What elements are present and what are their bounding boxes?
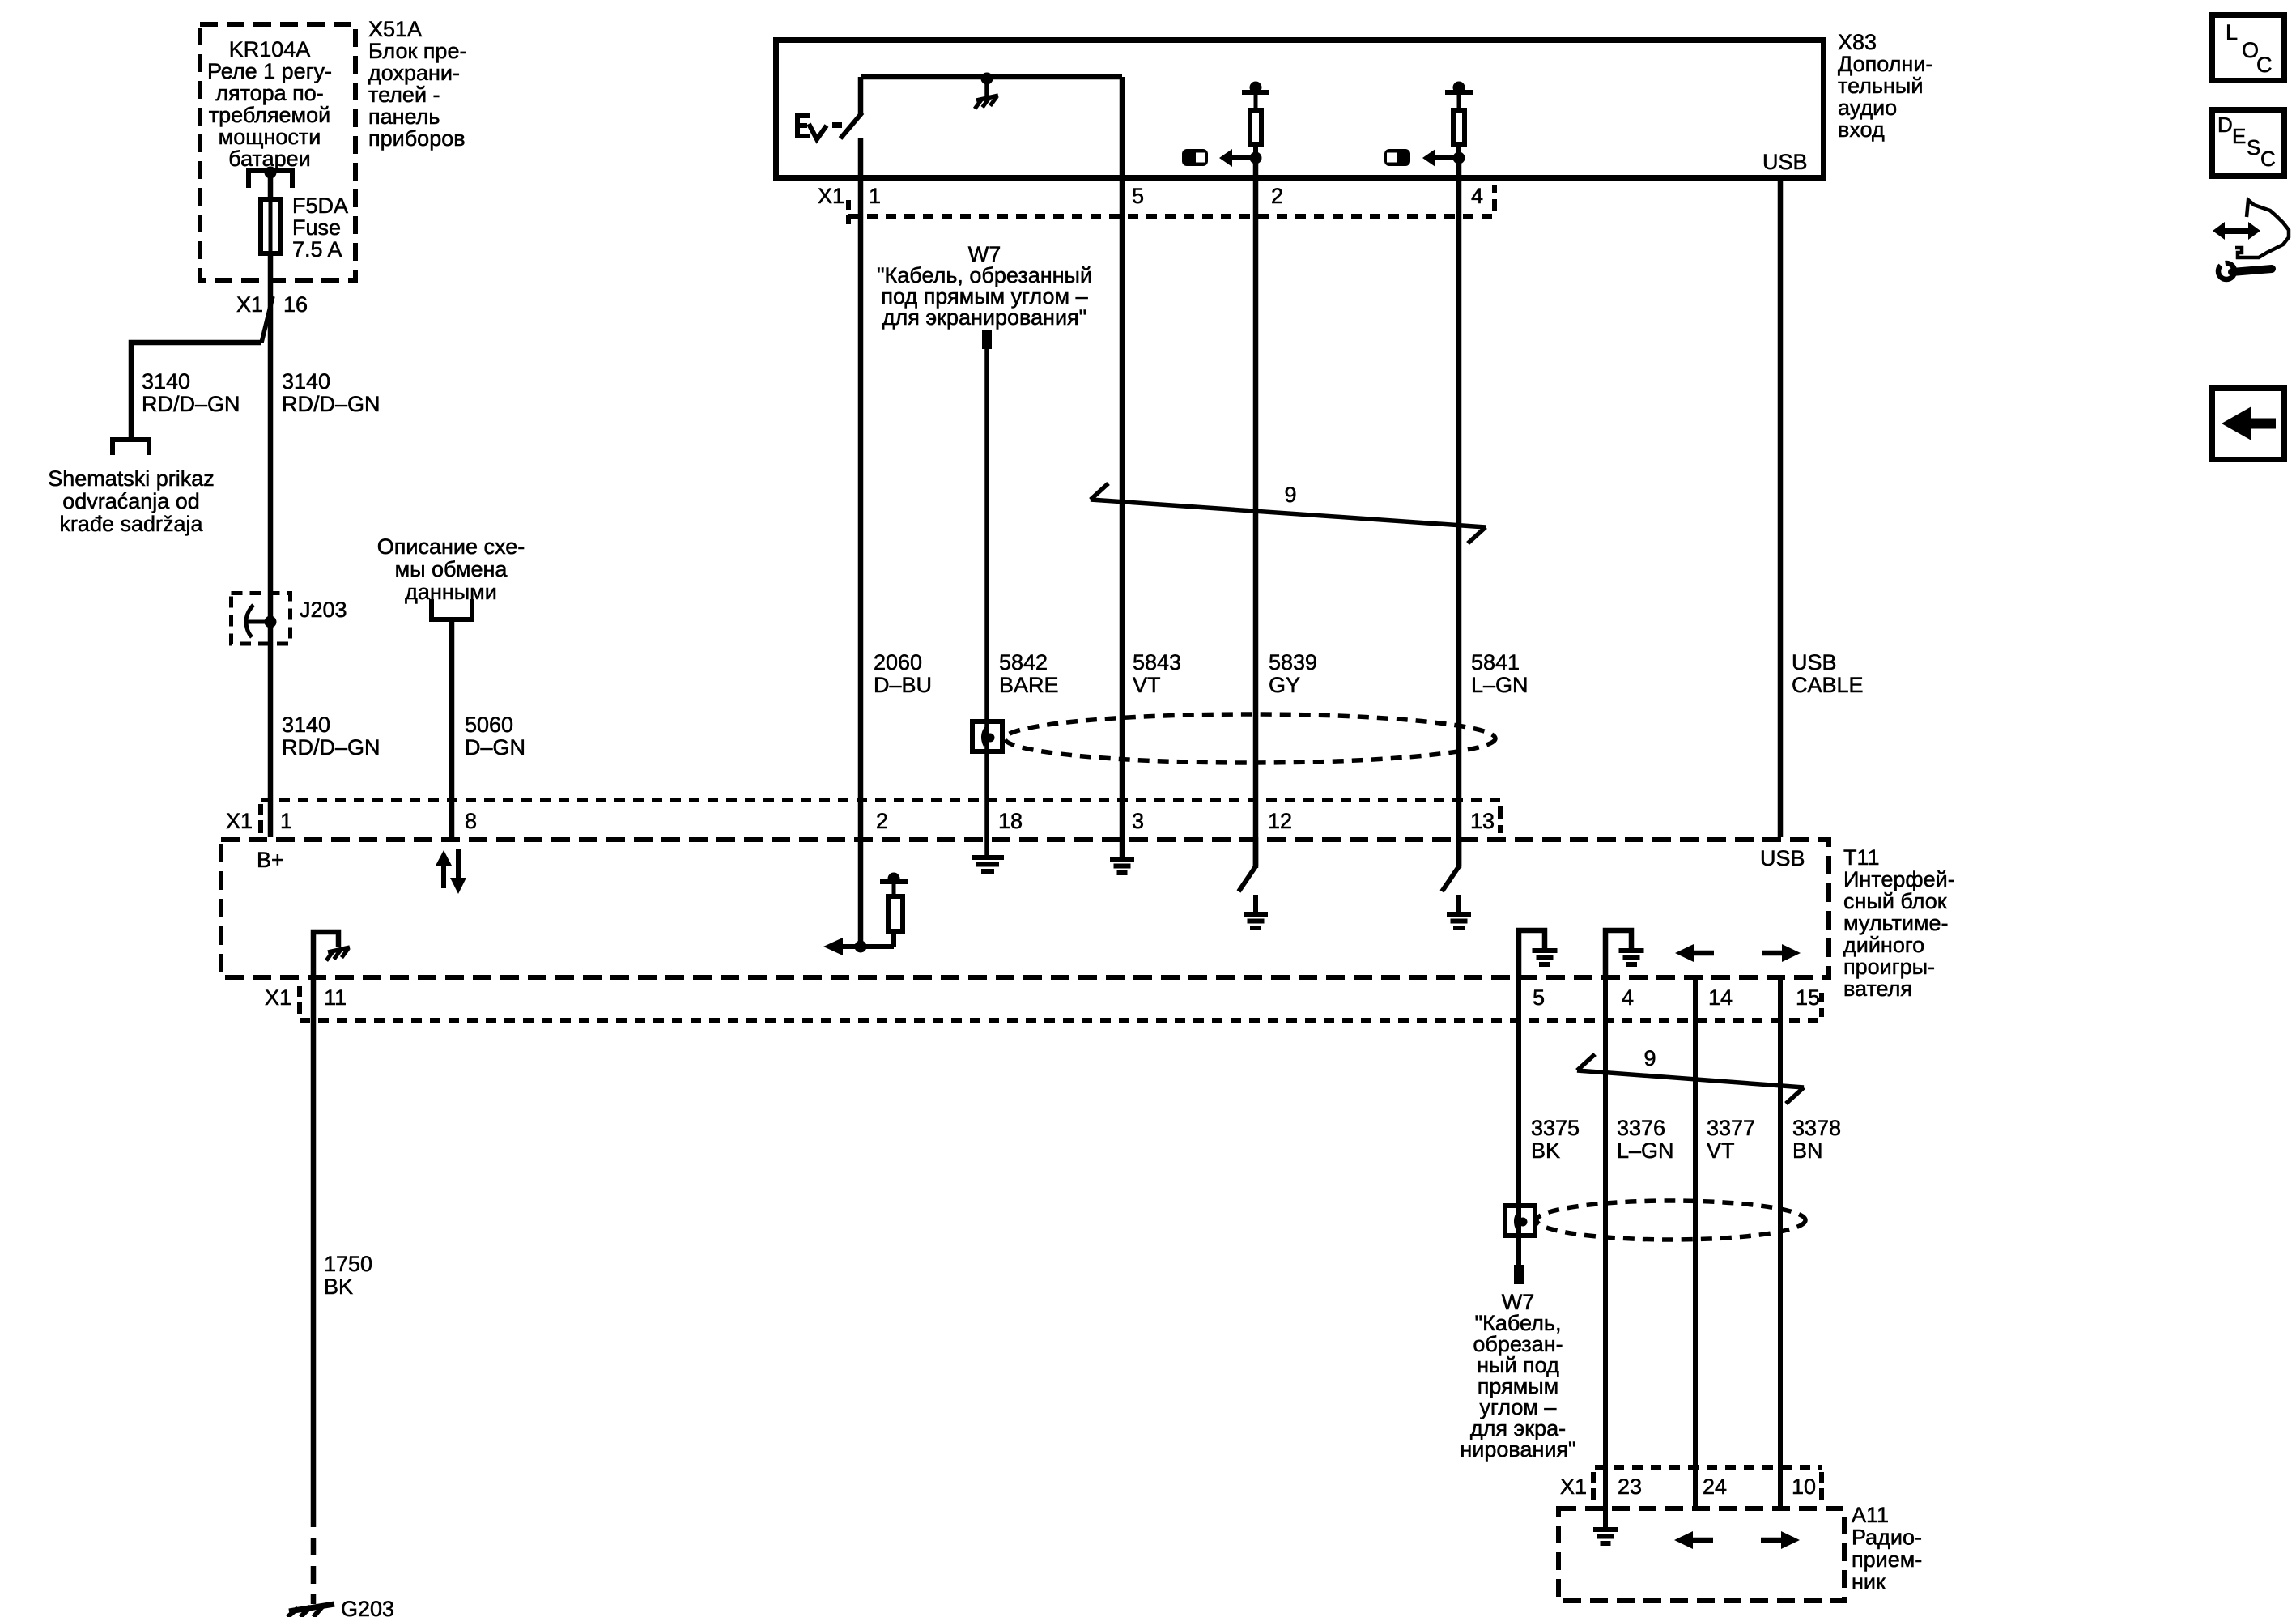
svg-text:мультиме-: мультиме- — [1843, 911, 1949, 935]
svg-text:3140: 3140 — [282, 369, 330, 394]
connector X83 box — [776, 40, 1824, 178]
svg-text:D–BU: D–BU — [874, 673, 932, 697]
connector X1 row (X83) dotted line — [848, 214, 1495, 219]
svg-text:11: 11 — [324, 985, 347, 1010]
svg-text:1: 1 — [869, 184, 881, 208]
connector X1 row (T11 bottom) dotted line — [300, 1018, 1822, 1023]
svg-text:тельный: тельный — [1838, 74, 1923, 98]
svg-text:13: 13 — [1470, 809, 1495, 833]
svg-text:нирования": нирования" — [1460, 1437, 1575, 1462]
shield cut stub (bottom) — [1514, 1265, 1524, 1284]
switch to ground (pin 13) — [1456, 837, 1462, 866]
ground G203 symbol — [289, 1604, 334, 1611]
signal ground (pin 5) — [1533, 948, 1558, 953]
data link connector icon wrench — [2218, 263, 2234, 279]
wire 3375 BK (shield) — [1516, 980, 1521, 1266]
arrow out (A11 pin 24) — [1691, 1538, 1713, 1543]
data arrows (pin 8) — [441, 863, 446, 888]
svg-text:X1: X1 — [818, 184, 844, 208]
svg-text:USB: USB — [1762, 150, 1808, 174]
svg-text:3376: 3376 — [1617, 1116, 1665, 1140]
svg-text:X1: X1 — [226, 809, 253, 833]
junction dot (T11 pin 2) — [855, 941, 867, 953]
signal ground (pin 3) — [1120, 837, 1125, 857]
svg-text:24: 24 — [1703, 1474, 1727, 1499]
wire terminal to fuse — [268, 172, 274, 199]
off-page bracket (data link) — [432, 599, 472, 619]
shield cut stub (top) — [982, 330, 992, 349]
chassis ground (X83) — [976, 96, 998, 100]
junction dot pin 2 (X83) — [1250, 152, 1262, 164]
svg-text:проигры-: проигры- — [1843, 955, 1935, 979]
wire branch to theft-deterrent note — [131, 343, 261, 442]
pin 16 branch slash — [261, 296, 273, 343]
svg-text:C: C — [2260, 147, 2276, 171]
arrow out (pin 14) — [1692, 951, 1714, 956]
arrow inside T11 (pin 2) — [844, 944, 859, 949]
svg-text:USB: USB — [1792, 650, 1837, 674]
wire fuse to pin 16 — [268, 253, 274, 837]
svg-text:5843: 5843 — [1133, 650, 1181, 674]
svg-text:4: 4 — [1471, 184, 1483, 208]
svg-text:9: 9 — [1284, 483, 1296, 507]
shield splice box (bottom) — [1505, 1206, 1535, 1236]
svg-text:Fuse: Fuse — [292, 215, 341, 240]
svg-text:odvraćanja od: odvraćanja od — [62, 489, 200, 513]
svg-text:5: 5 — [1533, 985, 1545, 1010]
relay KR104A dashed box (X51A fuse block) — [200, 24, 355, 280]
LOC icon box — [2213, 15, 2285, 81]
svg-text:X1: X1 — [1560, 1474, 1587, 1499]
svg-text:CABLE: CABLE — [1792, 673, 1864, 697]
jack switch gap dash — [832, 122, 842, 128]
svg-text:3: 3 — [1132, 809, 1144, 833]
svg-text:вход: вход — [1838, 117, 1885, 142]
battery feed terminal bracket — [249, 171, 292, 188]
connector X1 row (T11 bottom) divider — [297, 986, 302, 997]
svg-text:krađe sadržaja: krađe sadržaja — [59, 512, 203, 536]
shield splice box (top) — [972, 721, 1002, 751]
svg-text:RD/D–GN: RD/D–GN — [282, 392, 381, 416]
chassis ground stem (X83) — [984, 79, 989, 97]
svg-text:16: 16 — [283, 292, 308, 317]
svg-text:3377: 3377 — [1707, 1116, 1755, 1140]
svg-text:12: 12 — [1268, 809, 1292, 833]
svg-text:X51A: X51A — [368, 17, 422, 41]
svg-text:сный блок: сный блок — [1843, 889, 1947, 913]
connector X1 row (X83) end riser — [1492, 185, 1497, 193]
svg-text:15: 15 — [1796, 985, 1820, 1010]
svg-text:5: 5 — [1132, 184, 1144, 208]
splice J203 dashed box — [232, 594, 291, 645]
connector X1 row (X83) divider — [846, 200, 851, 210]
signal ground (A11 pin 23) — [1593, 1527, 1618, 1532]
svg-text:E: E — [2232, 124, 2246, 148]
svg-text:1750: 1750 — [324, 1252, 372, 1276]
wire X83 pin 1 to T11 pin 2 — [858, 138, 864, 947]
svg-text:3375: 3375 — [1531, 1116, 1580, 1140]
svg-text:L: L — [2226, 20, 2238, 45]
ground hook (pin 11) — [313, 932, 338, 981]
svg-text:аудио: аудио — [1838, 96, 1897, 120]
svg-text:мы обмена: мы обмена — [395, 557, 508, 581]
svg-text:D–GN: D–GN — [465, 735, 525, 760]
svg-text:7.5 A: 7.5 A — [292, 237, 342, 262]
svg-text:RD/D–GN: RD/D–GN — [142, 392, 240, 416]
svg-text:5839: 5839 — [1269, 650, 1317, 674]
wire X83 pin 4 to T11 pin 13 — [1456, 158, 1462, 868]
wire X83 pin 2 to T11 pin 12 — [1253, 158, 1259, 868]
svg-text:L–GN: L–GN — [1471, 673, 1529, 697]
data link connector icon car outline — [2235, 200, 2289, 257]
termination resistor (T11) — [842, 944, 894, 949]
data link connector icon arrow — [2224, 228, 2249, 234]
connector icon (pin2) — [1182, 149, 1208, 166]
svg-text:3140: 3140 — [142, 369, 190, 394]
shield ellipse (bottom) — [1537, 1201, 1805, 1240]
audio jack symbol — [795, 113, 800, 138]
wire blade to top rail — [858, 77, 864, 114]
svg-text:5060: 5060 — [465, 713, 513, 737]
svg-text:4: 4 — [1622, 985, 1634, 1010]
svg-text:5841: 5841 — [1471, 650, 1520, 674]
svg-text:B+: B+ — [257, 848, 284, 872]
wire 3377 VT — [1693, 980, 1698, 1508]
svg-text:Shematski prikaz: Shematski prikaz — [48, 466, 215, 491]
shield ellipse (top) — [1005, 714, 1495, 763]
svg-text:D: D — [2217, 113, 2233, 137]
svg-text:3140: 3140 — [282, 713, 330, 737]
ground hook (pin 4) — [1605, 930, 1631, 980]
svg-text:дохрани-: дохрани- — [368, 61, 460, 85]
arrow to connector icon (pin4) — [1435, 155, 1457, 160]
svg-text:мощности: мощности — [219, 125, 321, 149]
svg-text:2: 2 — [1271, 184, 1283, 208]
connector X1 row (A11) divider — [1591, 1472, 1596, 1483]
wire 1750 BK to G203 — [311, 981, 317, 1509]
svg-text:Интерфей-: Интерфей- — [1843, 867, 1955, 891]
wire 3376 L-GN — [1603, 980, 1608, 1529]
svg-text:Реле 1 регу-: Реле 1 регу- — [207, 59, 332, 83]
svg-text:14: 14 — [1708, 985, 1733, 1010]
svg-text:F5DA: F5DA — [292, 194, 348, 218]
connector X1 row (A11) end riser — [1819, 1472, 1824, 1483]
svg-text:требляемой: требляемой — [209, 103, 330, 127]
harness 9 crossing line (top) — [1091, 500, 1486, 527]
svg-text:телей -: телей - — [368, 83, 440, 107]
svg-text:приборов: приборов — [368, 126, 466, 151]
svg-text:S: S — [2247, 135, 2260, 160]
resistor R1 terminal bar — [1242, 90, 1269, 95]
svg-text:18: 18 — [998, 809, 1023, 833]
junction dot (shield ground) — [981, 73, 993, 85]
svg-text:Блок пре-: Блок пре- — [368, 39, 466, 63]
module T11 dashed box — [221, 840, 1829, 977]
svg-text:дийного: дийного — [1843, 933, 1924, 957]
svg-text:панель: панель — [368, 104, 440, 129]
svg-text:J203: J203 — [300, 598, 347, 622]
svg-text:для экранирования": для экранирования" — [882, 305, 1087, 330]
shield ground (pin 18) — [972, 855, 1004, 860]
svg-text:X83: X83 — [1838, 30, 1877, 54]
svg-text:T11: T11 — [1843, 845, 1880, 870]
switch to ground (pin 12) — [1253, 837, 1259, 866]
svg-text:RD/D–GN: RD/D–GN — [282, 735, 381, 760]
arrow in (pin 15) — [1762, 951, 1784, 956]
junction dot pin 4 (X83) — [1453, 152, 1465, 164]
chassis ground (T11 pin 11) — [328, 947, 350, 952]
arrow in (A11 pin 10) — [1761, 1538, 1783, 1543]
svg-text:X1: X1 — [236, 292, 263, 317]
svg-text:L–GN: L–GN — [1617, 1138, 1674, 1163]
DESC icon box — [2213, 110, 2285, 177]
wire 5842 BARE shield — [984, 349, 989, 857]
svg-text:3378: 3378 — [1792, 1116, 1841, 1140]
svg-text:BK: BK — [1531, 1138, 1560, 1163]
svg-text:VT: VT — [1707, 1138, 1735, 1163]
connector X1 row (T11 top) end riser — [1498, 806, 1503, 819]
svg-text:G203: G203 — [341, 1597, 394, 1617]
svg-text:KR104A: KR104A — [229, 37, 311, 62]
connector X1 row (T11 top) divider — [258, 804, 263, 815]
svg-text:BARE: BARE — [999, 673, 1059, 697]
svg-text:23: 23 — [1618, 1474, 1642, 1499]
svg-text:GY: GY — [1269, 673, 1300, 697]
svg-text:X1: X1 — [265, 985, 291, 1010]
connector X1 row (T11 top) dotted line — [261, 798, 1500, 802]
svg-text:прием-: прием- — [1852, 1547, 1922, 1572]
wire 5060 — [449, 619, 455, 837]
svg-text:9: 9 — [1643, 1046, 1656, 1070]
svg-text:8: 8 — [465, 809, 477, 833]
off-page bracket (theft deterrent) — [113, 440, 149, 455]
connector X1 row (T11 bottom) end riser — [1819, 993, 1824, 1002]
svg-text:2: 2 — [876, 809, 888, 833]
wire 3378 BN — [1778, 980, 1783, 1508]
svg-text:Дополни-: Дополни- — [1838, 52, 1932, 76]
harness 9 crossing line (bottom) — [1577, 1070, 1804, 1087]
resistor R2 terminal dot — [1453, 82, 1465, 94]
resistor R1 — [1254, 92, 1258, 110]
svg-text:BN: BN — [1792, 1138, 1823, 1163]
svg-text:10: 10 — [1792, 1474, 1816, 1499]
svg-text:VT: VT — [1133, 673, 1161, 697]
arrow to connector icon (pin2) — [1231, 155, 1254, 160]
svg-text:лятора по-: лятора по- — [215, 81, 324, 105]
svg-text:BK: BK — [324, 1274, 353, 1299]
connector icon (pin4) — [1384, 149, 1410, 166]
dashed wire to G203 — [311, 1509, 317, 1604]
svg-text:2060: 2060 — [874, 650, 922, 674]
resistor R1 terminal dot — [1250, 82, 1262, 94]
back arrow icon — [2250, 419, 2276, 429]
radio A11 dashed box — [1558, 1508, 1844, 1601]
resistor R2 terminal bar — [1445, 90, 1473, 95]
wire X83 USB to T11 — [1778, 181, 1784, 837]
jack switch blade — [840, 113, 862, 138]
svg-text:A11: A11 — [1852, 1503, 1889, 1527]
svg-text:Описание схе-: Описание схе- — [377, 534, 525, 559]
signal ground (pin 4) — [1619, 948, 1644, 953]
svg-text:Радио-: Радио- — [1852, 1526, 1922, 1550]
resistor R2 — [1457, 92, 1461, 110]
svg-text:1: 1 — [280, 809, 292, 833]
svg-text:ник: ник — [1852, 1570, 1886, 1594]
svg-text:USB: USB — [1760, 846, 1805, 870]
ground hook (pin 5) — [1519, 930, 1545, 980]
top rail wire (pin1 to pin5) — [861, 74, 1122, 80]
wire X83 pin 5 column — [1120, 77, 1125, 837]
back arrow icon box — [2213, 389, 2285, 460]
fuse F5DA — [261, 199, 281, 253]
svg-text:данными: данными — [405, 580, 497, 604]
svg-text:C: C — [2256, 53, 2273, 77]
splice J203 symbol — [246, 605, 253, 637]
connector X1 row (A11) dotted line — [1595, 1465, 1822, 1470]
svg-text:вателя: вателя — [1843, 977, 1912, 1001]
svg-text:5842: 5842 — [999, 650, 1048, 674]
